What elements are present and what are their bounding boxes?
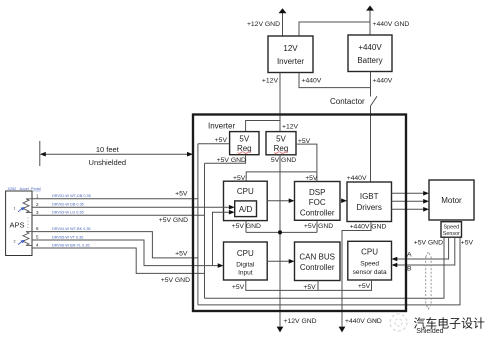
driver IGBT Drivers [347,182,392,222]
regulator 5V Reg1 [230,132,259,155]
wire sensor A to CPU [397,237,449,259]
wire +440V input of 12V inverter [299,73,371,88]
svg-text:5V: 5V [239,134,249,143]
svg-text:+5V GND: +5V GND [217,157,246,164]
svg-text:+440V: +440V [358,43,382,52]
svg-text:+5V GND: +5V GND [161,277,190,284]
svg-text:DRV03-W LG 0.35: DRV03-W LG 0.35 [52,211,84,215]
wire +5V GND of Reg1 [205,155,246,164]
sensor APS [6,191,32,256]
wire +5V output Reg2 [296,144,317,181]
sensor Speed Sensor [441,222,462,238]
wire +5V branch to CPU [246,172,317,181]
svg-text:10 feet: 10 feet [96,145,120,154]
wire pin5 signal to Digital Input [32,240,218,266]
contactor switch [330,96,377,106]
svg-text:+5V: +5V [175,190,188,197]
svg-text:+440V: +440V [302,78,322,85]
svg-text:+440V: +440V [373,78,393,85]
svg-text:DRV01-W WT-DB 0.35: DRV01-W WT-DB 0.35 [52,194,91,198]
svg-text:+5V GND: +5V GND [159,217,188,224]
box Inverter (main enclosure) [193,115,406,312]
wire IGBT to Motor phase 3 [392,208,424,210]
wire pot link (dotted) [27,218,29,231]
wire GND rail2 (left) [204,163,206,298]
ground symbol +440V GND (top arrow) [366,6,409,36]
wire CPU to DSP [267,200,289,202]
dimension 10 feet Unshielded [40,141,193,167]
wire +440V to IGBT [370,106,372,183]
wire IGBT to Motor phase 1 [392,192,424,194]
svg-text:5V GND: 5V GND [271,157,296,164]
svg-text:+5V: +5V [461,240,474,247]
wire 440V GND link [299,22,370,36]
svg-text:+5V: +5V [303,284,316,291]
svg-text:Drivers: Drivers [357,203,382,212]
svg-text:+440V GND: +440V GND [373,21,410,28]
svg-text:APS: APS [9,221,24,230]
svg-text:Input: Input [238,270,253,277]
svg-text:A: A [407,251,412,258]
wire +12V rail (inverter to 5V Reg2) [279,73,281,132]
svg-text:DRV06-W BR-YL 0.35: DRV06-W BR-YL 0.35 [52,243,90,247]
junction dot [278,230,282,234]
svg-text:+5V GND: +5V GND [232,223,261,230]
wire +5V bus A (row2 supplies) [246,280,372,290]
svg-text:IGBT: IGBT [360,192,379,201]
wire pin5 branch to A/D [213,212,230,265]
wire IGBT to Motor phase 2 [392,200,424,202]
svg-text:+5V: +5V [215,137,228,144]
wire pin4 GND [32,248,205,273]
svg-text:B: B [407,266,412,273]
regulator 5V Reg2 [266,132,296,155]
svg-text:+5V GND: +5V GND [304,223,333,230]
svg-text:Sensor: Sensor [443,231,460,237]
wire pin6 +5V [32,232,198,258]
svg-text:Controller: Controller [300,263,335,272]
box +440V Battery [348,35,392,72]
processor CPU Speed sensor data [348,241,392,280]
svg-text:Motor: Motor [441,196,462,205]
svg-text:+440V: +440V [347,175,367,182]
controller DSP FOC [295,182,341,221]
svg-text:1: 1 [14,207,16,211]
processor CPU Digital Input [224,242,268,280]
converter A/D [235,201,257,217]
svg-text:DSP: DSP [309,188,325,197]
wire GND bus B to speed sensor [205,237,445,298]
svg-text:+5V GND: +5V GND [414,240,443,247]
wire DSP to IGBT [340,200,342,202]
svg-text:Controller: Controller [300,208,335,217]
watermark logo [390,314,407,331]
processor CPU (with A/D) [224,181,268,220]
svg-text:+5V: +5V [175,251,188,258]
svg-text:+12V GND: +12V GND [284,318,317,325]
svg-text:Inverter: Inverter [208,121,235,130]
svg-text:Unshielded: Unshielded [89,158,127,167]
wire +5V bus C to speed sensor [198,237,460,305]
wire pin2 signal to A/D [32,206,229,208]
motor Motor [429,180,474,220]
potentiometer 2 [14,232,33,246]
svg-text:+440V GND: +440V GND [350,223,387,230]
wire +5V GND link CPU/DSP [245,221,247,233]
svg-text:+5V: +5V [358,283,371,290]
wire +440V from battery [370,72,372,97]
svg-text:X252 Accel_Pedal: X252 Accel_Pedal [8,187,41,191]
svg-text:+5V: +5V [232,284,245,291]
wire +5V output Reg1 [198,143,230,145]
svg-text:Battery: Battery [357,56,382,65]
svg-text:+12V: +12V [282,123,299,130]
wire +5V rail1 (left) [197,144,199,305]
svg-text:Contactor: Contactor [330,97,365,106]
shield (dashed) around sensor wires [426,252,431,309]
svg-text:12V: 12V [283,44,298,53]
wire +440V GND of IGBT [342,222,371,327]
svg-text:sensor data: sensor data [353,269,387,276]
svg-text:5V: 5V [276,134,286,143]
ground +12V GND (bottom arrow) [277,327,284,333]
wire pin1 +5V [32,198,198,200]
potentiometer 1 [14,199,33,213]
controller CAN BUS [295,242,341,281]
svg-text:A/D: A/D [239,205,253,214]
svg-text:Speed: Speed [444,225,460,231]
ground +440V GND (bottom arrow) [339,327,346,333]
svg-text:+12V GND: +12V GND [247,21,280,28]
svg-text:DRV04-W WT-BK 0.35: DRV04-W WT-BK 0.35 [52,227,91,231]
svg-text:CPU: CPU [237,187,254,196]
svg-text:CAN BUS: CAN BUS [299,253,335,262]
svg-text:Digital: Digital [236,261,255,268]
box Inverter enclosure border (top stroke) [193,115,406,312]
svg-text:+5V: +5V [298,138,311,145]
svg-text:DRV05-W VT 0.35: DRV05-W VT 0.35 [52,235,83,239]
svg-text:DRV02-W DB 0.35: DRV02-W DB 0.35 [52,203,84,207]
svg-text:FOC: FOC [309,198,326,207]
svg-text:汽车电子设计: 汽车电子设计 [414,316,485,330]
svg-text:CPU: CPU [361,248,378,257]
wire sensor B to CPU [397,237,455,265]
ground symbol +12V GND (top arrow) [247,8,287,36]
svg-text:Speed: Speed [360,260,379,267]
wire +12V branch to 5V Reg1 [246,121,280,132]
svg-text:CPU: CPU [237,249,254,258]
box 12V Inverter [268,36,313,73]
wire pin3 GND [32,214,205,216]
wire 5V GND of Reg2 (down to +12V GND exit) [279,155,281,327]
svg-text:2: 2 [14,239,16,243]
svg-text:+12V: +12V [262,78,279,85]
svg-text:Inverter: Inverter [277,57,304,66]
wire CPU DI to CAN BUS [267,260,289,262]
